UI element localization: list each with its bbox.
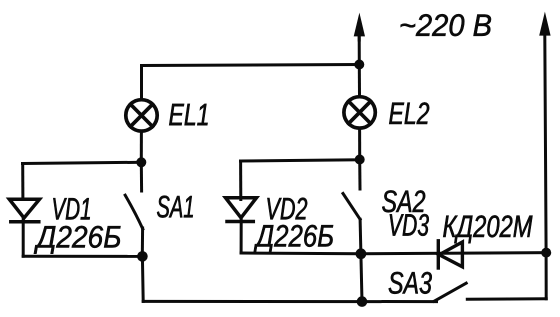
wire VD2 bottom horizontal [241,252,361,256]
wire left drop to bottom bus [141,256,145,301]
label SA3 [389,272,432,294]
node G junction dot right [541,248,551,258]
label Д226Б (VD1 value) [34,226,121,254]
wire center drop to bottom bus [361,254,362,302]
label VD3 [390,214,429,236]
node F junction dot SA2 bottom [356,248,367,259]
node B junction dot left [136,157,146,167]
label КД202М (VD3 value) [443,215,532,243]
label VD1 [53,198,90,219]
wire top horizontal from EL1 branch to center node [142,65,360,98]
wire VD1 branch horizontal [23,162,142,163]
wire VD1 vertical anode [21,164,24,200]
label SA2 [382,190,425,212]
label ~220 V [401,14,491,36]
wire VD2 branch horizontal [241,160,360,161]
switch SA2 top stub [358,160,361,190]
node E junction dot below EL2 [355,155,365,165]
lamp EL2 [344,97,375,128]
wire EL2 bottom to junction [358,129,361,160]
label VD2 [267,198,307,220]
diode VD2 cathode bar [227,220,253,224]
arrow head center (power) [354,13,365,37]
switch SA3 blade [434,283,466,301]
arrow line ~220V center [358,36,361,40]
diode VD1 cathode bar [11,220,39,224]
node A junction dot top center [354,60,364,70]
diode VD3 triangle [439,242,462,267]
wire right vertical from arrow to bottom corner [545,36,546,299]
label EL2 [389,102,429,124]
switch SA1 blade [125,195,143,229]
wire bottom right horizontal to SA3 contact [467,297,546,301]
wire EL1 bottom to junction [140,132,143,163]
switch SA1 top stub [140,162,143,191]
diode VD3 cathode bar [437,241,440,268]
wire VD2 cathode vertical [240,218,243,253]
label Д226Б (VD2 value) [254,225,334,253]
node D junction dot bottom bus [357,296,368,307]
wire mid-right horizontal through VD3 [361,253,546,254]
wire VD1 cathode vertical [22,218,25,257]
wire bottom bus [143,300,436,303]
label SA1 [157,196,193,218]
switch SA2 pivot wire [359,219,363,253]
wire VD1 bottom horizontal [23,255,142,258]
diode VD2 triangle [226,198,257,218]
lamp EL1 [126,100,157,131]
diode VD1 triangle [9,199,39,218]
wire VD2 vertical anode [239,161,242,200]
label EL1 [169,104,207,125]
arrow head right (power) [539,12,550,36]
switch SA2 blade [343,194,360,220]
wire node A to EL2 top [358,65,361,95]
switch SA1 pivot wire [141,228,144,256]
node C junction dot SA1 bottom [137,251,148,262]
wire center vertical below arrow [358,36,361,65]
